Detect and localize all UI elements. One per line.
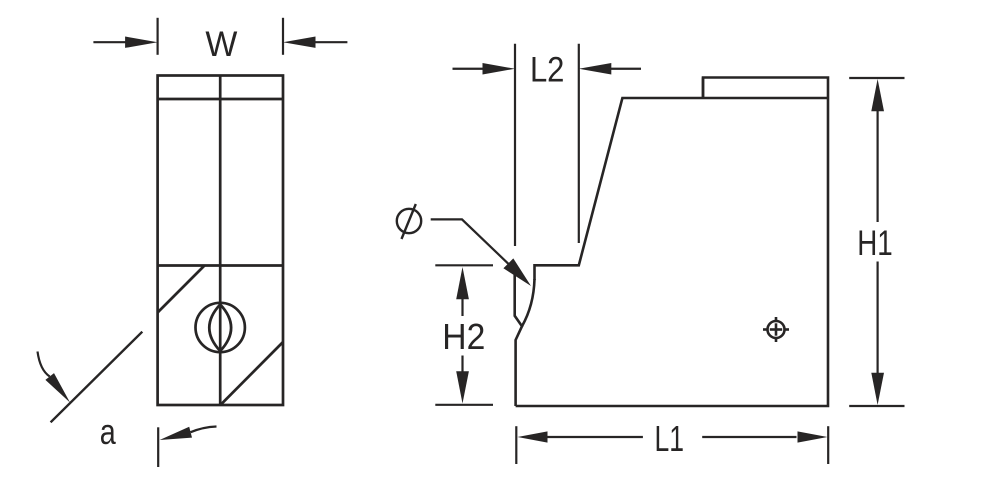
svg-text:H1: H1 [857, 224, 893, 263]
angle a: curved arrow onto vertical line [160, 427, 217, 441]
dimension L2: right arrow [579, 63, 641, 74]
right view: tool body outline [515, 78, 828, 407]
angle a: curved arrow onto slanted line [38, 352, 71, 403]
svg-text:L1: L1 [655, 418, 685, 459]
diameter symbol [397, 204, 421, 239]
left view: insert lens shape [209, 304, 231, 351]
dimension H1: top extension line [849, 77, 904, 79]
dimension H1: bottom extension line [849, 405, 904, 407]
dimension W: right extension tick [282, 18, 284, 55]
left view: center line [219, 76, 222, 406]
dimension H1: dimension line upper with up arrow [871, 79, 884, 222]
angle a: vertical extension line below body [157, 427, 159, 467]
dimension L2: right extension line [578, 44, 580, 243]
left view: upper-left seat diagonal [158, 266, 205, 313]
dimension H2: down arrow and stub [456, 356, 469, 404]
dimension H1: dimension line lower with down arrow [871, 262, 884, 406]
svg-text:H2: H2 [442, 316, 485, 357]
diameter leader line with arrowhead [431, 219, 531, 286]
dimension H2: bottom extension line [435, 404, 493, 406]
left view: lower-right seat diagonal [220, 342, 283, 405]
dimension L1: left arrow [518, 431, 643, 442]
dimension H2: top extension line [435, 264, 493, 266]
right view: insert cutting arc [522, 279, 535, 326]
dimension W: left arrow [93, 37, 157, 48]
angle a: slanted reference line [51, 332, 143, 423]
left view: top clamp band line [158, 98, 283, 101]
dimension L1: right extension line [827, 426, 829, 464]
dimension L2: left extension line [514, 44, 516, 246]
dimension W: right arrow [283, 37, 347, 48]
svg-text:L2: L2 [530, 51, 565, 90]
dimension L1: left extension line [515, 426, 517, 464]
dimension L1: right arrow [702, 431, 827, 442]
svg-text:W: W [205, 25, 237, 64]
dimension H2: up arrow and stub [456, 267, 469, 316]
dimension W: left extension tick [157, 18, 159, 55]
target symbol (center mark) [763, 317, 789, 342]
svg-text:a: a [100, 411, 117, 452]
right view: top tab edge [702, 78, 705, 99]
left view: mid seat line [158, 264, 283, 267]
left view: holder body front outline [158, 76, 283, 406]
dimension L2: left arrow [453, 63, 516, 74]
left view: insert circle [196, 303, 245, 352]
